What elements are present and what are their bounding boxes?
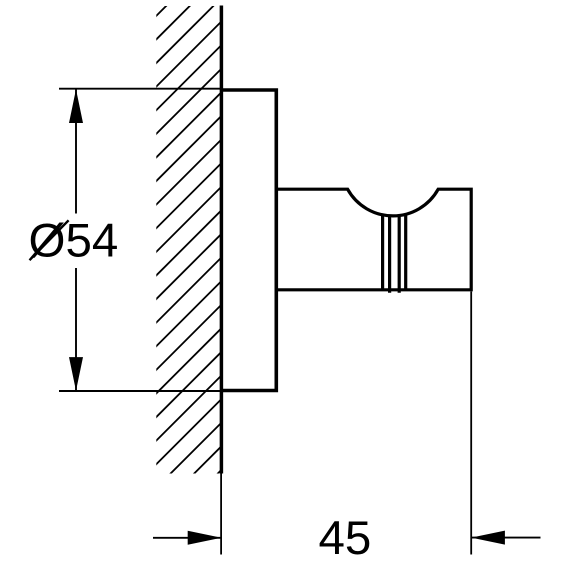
mounting plate outline bbox=[221, 90, 276, 391]
right arrowhead pointing right bbox=[188, 531, 222, 545]
up arrowhead bbox=[69, 89, 83, 123]
svg-text:Ø54: Ø54 bbox=[29, 215, 119, 268]
wall extension line (thin, below wall) bbox=[220, 474, 222, 555]
svg-text:45: 45 bbox=[318, 512, 371, 565]
hook body outline with concave notch bbox=[276, 189, 471, 290]
top extension line of diameter dimension bbox=[59, 88, 221, 90]
wall section hatching bbox=[150, 0, 226, 565]
wall face line bbox=[220, 6, 224, 474]
left arrowhead pointing left bbox=[471, 531, 505, 545]
down arrowhead bbox=[69, 357, 83, 391]
bottom extension line of diameter dimension bbox=[59, 390, 221, 392]
diameter slash extension bbox=[30, 220, 69, 260]
45 dimension line right segment bbox=[471, 537, 540, 539]
diameter dimension line lower segment bbox=[75, 268, 77, 391]
hook waist groove line 4 bbox=[404, 214, 407, 290]
hook waist groove line 2 bbox=[388, 215, 391, 293]
right extension line of 45 dimension bbox=[470, 292, 472, 555]
diameter dimension line upper segment bbox=[75, 89, 77, 213]
45 dimension line left segment bbox=[153, 537, 221, 539]
hook waist groove line 1 bbox=[381, 214, 384, 290]
hook waist groove line 3 bbox=[398, 215, 401, 293]
